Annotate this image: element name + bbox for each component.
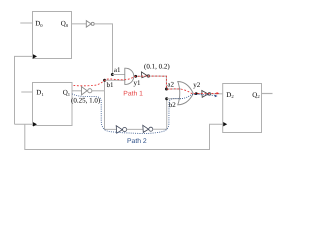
clock triangle FF2: [223, 122, 227, 126]
inverter A (after Q0): [86, 21, 91, 28]
node a1: [111, 73, 114, 76]
wire junction down and bottom path to inverter D: [105, 91, 117, 130]
svg-text:b1: b1: [107, 81, 115, 89]
wire Q1 to inverter B: [72, 90, 82, 92]
clock triangle FF0: [33, 54, 37, 58]
svg-text:(0.1, 0.2): (0.1, 0.2): [144, 62, 170, 70]
svg-text:y2: y2: [193, 81, 201, 89]
Path 2 arrowhead: [215, 95, 218, 98]
wire a2 to OR y2: [167, 88, 182, 90]
wire inverter A to node a1: [94, 24, 112, 75]
wire FF0 clock: [15, 56, 33, 124]
wire Q0 to inverter A: [72, 23, 87, 25]
svg-text:a2: a2: [167, 80, 174, 88]
wire a1 to AND y1: [112, 74, 125, 76]
wire y2 output to inverter F: [192, 93, 202, 95]
wire b2 to OR y2: [167, 98, 181, 100]
svg-text:b2: b2: [169, 101, 177, 109]
wire Q2 output: [262, 93, 273, 95]
svg-text:a1: a1: [114, 66, 121, 74]
svg-text:(0.25, 1.0): (0.25, 1.0): [71, 96, 101, 104]
inverter E (path2 second): [143, 125, 149, 132]
inverter B (after Q1): [82, 87, 88, 95]
wire D1 input: [21, 91, 32, 93]
Path 1 red dashed: [74, 76, 217, 94]
node b2: [165, 97, 168, 100]
wire b1 to AND y1: [105, 79, 125, 81]
wire FF1 clock: [15, 123, 33, 125]
clock triangle FF1: [33, 122, 37, 126]
node b1: [103, 79, 106, 82]
svg-text:Path 1: Path 1: [123, 90, 143, 97]
wire D0 input: [20, 22, 32, 24]
inverter C (after y1): [141, 72, 147, 78]
wire junction up to b1: [104, 80, 106, 91]
wire inverter F to D2: [211, 93, 223, 95]
OR gate y2: [178, 82, 194, 105]
Path 2 blue dotted: [72, 94, 215, 134]
flip-flop FF2 box: [223, 84, 262, 133]
wire y1 output: [134, 75, 142, 77]
wire inverter C to node a2: [150, 76, 167, 89]
svg-text:Path 2: Path 2: [127, 138, 147, 145]
inverter D (path2 first): [116, 126, 122, 134]
node y2 output dot: [195, 92, 198, 95]
wire inverter E to node b2: [153, 99, 167, 130]
wire inverter B to junction: [92, 90, 105, 92]
AND gate y1: [125, 68, 134, 84]
wire FF2 clock from bottom rail: [25, 124, 223, 149]
flip-flop FF1 box: [33, 83, 73, 126]
Path 1 arrowhead: [217, 92, 220, 94]
wire inverter D to inverter E: [127, 128, 143, 130]
inverter F (before D2): [202, 91, 208, 98]
node y1 output dot: [134, 75, 137, 78]
svg-text:y1: y1: [134, 79, 142, 87]
node a2: [165, 88, 168, 91]
flip-flop FF0 box: [33, 12, 72, 59]
